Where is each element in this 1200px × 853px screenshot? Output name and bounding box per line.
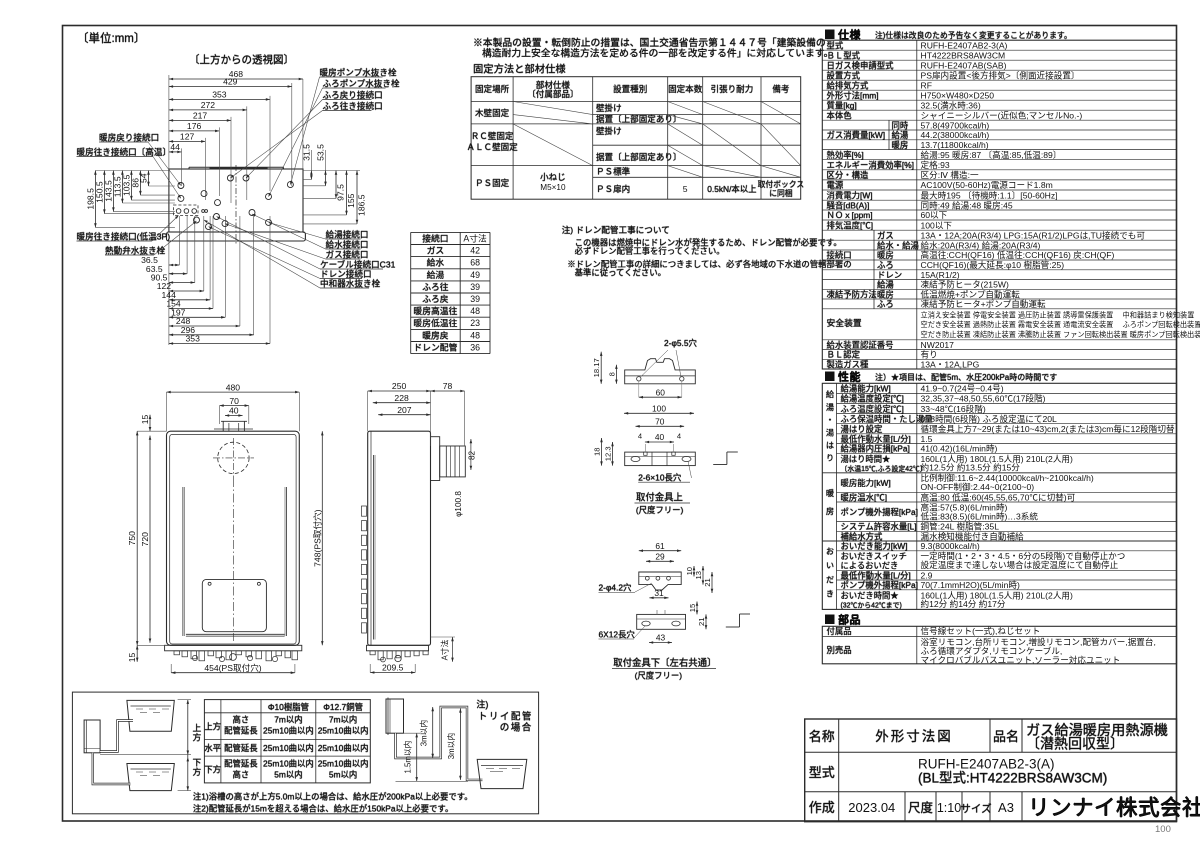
svg-text:ＰＳ標準: ＰＳ標準 bbox=[596, 166, 631, 177]
piping table bbox=[204, 700, 370, 783]
svg-text:ＢＬ認定: ＢＬ認定 bbox=[827, 350, 861, 360]
fixing methods table bbox=[466, 77, 804, 200]
svg-text:給排気方式: 給排気方式 bbox=[827, 80, 869, 90]
svg-text:29: 29 bbox=[655, 552, 665, 562]
svg-text:1:10: 1:10 bbox=[937, 801, 961, 815]
svg-text:2023.04: 2023.04 bbox=[848, 800, 895, 815]
svg-text:給水装置認証番号: 給水装置認証番号 bbox=[827, 340, 894, 350]
svg-text:定格:93: 定格:93 bbox=[921, 159, 950, 170]
svg-text:21: 21 bbox=[703, 578, 712, 586]
svg-text:性能: 性能 bbox=[838, 370, 861, 384]
front view bottom fittings bbox=[174, 651, 298, 662]
svg-text:給湯温度設定[℃]: 給湯温度設定[℃] bbox=[841, 394, 904, 404]
parts header bbox=[825, 613, 861, 627]
svg-text:給湯接続口: 給湯接続口 bbox=[326, 229, 369, 240]
unit label bbox=[77, 31, 145, 45]
svg-text:70: 70 bbox=[655, 417, 665, 427]
svg-text:品名: 品名 bbox=[993, 729, 1019, 744]
svg-text:ＰＳ固定: ＰＳ固定 bbox=[475, 177, 510, 188]
svg-text:54: 54 bbox=[139, 173, 149, 183]
side view bottom fittings bbox=[370, 651, 428, 662]
svg-text:給湯:95 暖房:87 〔高温:85,低温:89〕: 給湯:95 暖房:87 〔高温:85,低温:89〕 bbox=[921, 149, 1062, 160]
svg-text:トリイ配管: トリイ配管 bbox=[478, 711, 533, 723]
svg-text:暖房: 暖房 bbox=[892, 140, 909, 150]
svg-text:サイズ: サイズ bbox=[960, 802, 991, 815]
svg-text:454(PS取付穴): 454(PS取付穴) bbox=[204, 662, 261, 673]
svg-text:下方: 下方 bbox=[204, 765, 221, 775]
svg-text:176: 176 bbox=[187, 121, 202, 131]
svg-text:207: 207 bbox=[397, 405, 412, 415]
svg-text:33~48℃(16段階): 33~48℃(16段階) bbox=[921, 403, 986, 414]
svg-text:44: 44 bbox=[170, 142, 180, 152]
svg-text:有り: 有り bbox=[921, 349, 938, 360]
top view body bbox=[167, 165, 306, 245]
svg-text:最低作動水量[L/分]: 最低作動水量[L/分] bbox=[841, 434, 911, 444]
svg-text:ON-OFF制御:2.44~0(2100~0): ON-OFF制御:2.44~0(2100~0) bbox=[921, 481, 1035, 492]
top view top dimensions bbox=[169, 69, 303, 203]
piping section box bbox=[72, 692, 538, 814]
svg-text:32,35,37~48,50,55,60℃(17段階): 32,35,37~48,50,55,60℃(17段階) bbox=[921, 393, 1046, 404]
svg-text:〔潜熱回収型〕: 〔潜熱回収型〕 bbox=[1026, 736, 1124, 752]
svg-text:に同梱: に同梱 bbox=[769, 188, 793, 198]
svg-text:ドレン: ドレン bbox=[877, 270, 902, 280]
svg-text:ふろ温度設定[℃]: ふろ温度設定[℃] bbox=[841, 404, 904, 414]
svg-text:100: 100 bbox=[1155, 824, 1171, 835]
svg-text:13A・12A;20A(R3/4) LPG:15A(R1/2: 13A・12A;20A(R3/4) LPG:15A(R1/2)LPGは,TU接続… bbox=[921, 229, 1146, 240]
svg-text:4: 4 bbox=[638, 432, 642, 441]
svg-text:ドレン接続口: ドレン接続口 bbox=[320, 268, 372, 279]
svg-text:750: 750 bbox=[127, 531, 137, 546]
svg-text:付属品: 付属品 bbox=[827, 626, 852, 636]
svg-text:鋼管:24L 樹脂管:35L: 鋼管:24L 樹脂管:35L bbox=[921, 521, 1000, 532]
svg-text:外形寸法[mm]: 外形寸法[mm] bbox=[827, 90, 879, 100]
svg-text:PS扉内設置<後方排気>〔側面近接設置〕: PS扉内設置<後方排気>〔側面近接設置〕 bbox=[921, 69, 1080, 80]
svg-text:ふろ往: ふろ往 bbox=[422, 281, 449, 292]
svg-text:RUFH-E2407AB(SAB): RUFH-E2407AB(SAB) bbox=[921, 60, 1007, 70]
svg-text:暖房往き接続口(低温3P): 暖房往き接続口(低温3P) bbox=[77, 231, 171, 242]
piping right diagram bbox=[386, 698, 533, 789]
svg-text:480: 480 bbox=[226, 382, 241, 392]
fixing methods caption bbox=[473, 63, 566, 76]
svg-text:(BL型式:HT4222BRS8AW3CM): (BL型式:HT4222BRS8AW3CM) bbox=[918, 771, 1107, 786]
top view title bbox=[189, 53, 294, 66]
svg-text:48: 48 bbox=[470, 330, 480, 340]
svg-text:立消え安全装置 停電安全装置 過圧防止装置 誘導雷保護装置: 立消え安全装置 停電安全装置 過圧防止装置 誘導雷保護装置 中和器詰まり検知装置 bbox=[921, 311, 1195, 320]
svg-text:システム許容水量[L]: システム許容水量[L] bbox=[841, 522, 917, 532]
svg-text:〔単位:mm〕: 〔単位:mm〕 bbox=[77, 31, 145, 45]
svg-text:接続口: 接続口 bbox=[827, 250, 852, 260]
svg-text:高温:80 低温:60(45,55,65,70℃に切替)可: 高温:80 低温:60(45,55,65,70℃に切替)可 bbox=[921, 491, 1076, 502]
svg-text:ふろ: ふろ bbox=[877, 260, 894, 270]
sheet number bbox=[1155, 824, 1171, 835]
svg-text:構造耐力上安全な構造方法を定める件の一部を改定する件」に対応: 構造耐力上安全な構造方法を定める件の一部を改定する件」に対応しています。 bbox=[482, 46, 833, 59]
svg-text:※本製品の設置・転倒防止の措置は、国土交通省告示第１４４７号: ※本製品の設置・転倒防止の措置は、国土交通省告示第１４４７号「建築設備の bbox=[473, 36, 826, 49]
svg-text:シャイニーシルバー(近似色;マンセルNo.-): シャイニーシルバー(近似色;マンセルNo.-) bbox=[921, 109, 1083, 120]
svg-text:25m10曲以内: 25m10曲以内 bbox=[263, 759, 314, 769]
svg-text:7m以内: 7m以内 bbox=[274, 715, 302, 725]
svg-text:353: 353 bbox=[186, 334, 201, 344]
svg-text:騒音[dB(A)]: 騒音[dB(A)] bbox=[827, 200, 870, 210]
svg-text:φ100.8: φ100.8 bbox=[454, 491, 463, 517]
svg-text:2-φ4.2穴: 2-φ4.2穴 bbox=[599, 583, 633, 593]
svg-text:給水・給湯: 給水・給湯 bbox=[877, 240, 919, 250]
svg-text:凍結予防ヒータ+ポンプ自動運転: 凍結予防ヒータ+ポンプ自動運転 bbox=[921, 298, 1046, 309]
svg-text:HT4222BRS8AW3CM: HT4222BRS8AW3CM bbox=[921, 50, 1006, 60]
svg-text:49: 49 bbox=[470, 270, 480, 280]
svg-text:配管延長: 配管延長 bbox=[224, 726, 258, 736]
svg-text:最低作動水量[L/分]: 最低作動水量[L/分] bbox=[841, 570, 911, 580]
svg-text:注2)配管延長が15mを超える場合は、給水圧が150kPa以: 注2)配管延長が15mを超える場合は、給水圧が150kPa以上必要です。 bbox=[193, 804, 453, 814]
svg-text:272: 272 bbox=[201, 100, 216, 110]
svg-text:暖房戻り接続口: 暖房戻り接続口 bbox=[99, 132, 159, 143]
svg-text:木壁固定: 木壁固定 bbox=[475, 107, 510, 118]
svg-text:消費電力[W]: 消費電力[W] bbox=[827, 190, 873, 200]
top view callout labels bbox=[77, 67, 400, 289]
svg-text:給水接続口: 給水接続口 bbox=[326, 239, 369, 250]
svg-text:おいだき: おいだき bbox=[825, 547, 834, 604]
svg-text:取付金具上: 取付金具上 bbox=[636, 492, 683, 503]
svg-text:44.2(38000kcal/h): 44.2(38000kcal/h) bbox=[921, 130, 990, 140]
svg-text:暖房: 暖房 bbox=[877, 250, 894, 260]
svg-text:本体色: 本体色 bbox=[827, 110, 853, 120]
svg-text:区分・構造: 区分・構造 bbox=[827, 170, 869, 180]
svg-text:給湯: 給湯 bbox=[892, 130, 909, 140]
svg-text:209.5: 209.5 bbox=[382, 663, 404, 673]
svg-text:暖房: 暖房 bbox=[825, 489, 834, 525]
svg-text:備考: 備考 bbox=[772, 83, 790, 94]
svg-text:25m10曲以内: 25m10曲以内 bbox=[263, 743, 314, 753]
svg-text:13: 13 bbox=[694, 571, 703, 579]
svg-text:RUFH-E2407AB2-3(A): RUFH-E2407AB2-3(A) bbox=[921, 40, 1008, 50]
svg-text:配管延長: 配管延長 bbox=[224, 759, 258, 769]
svg-text:25m10曲以内: 25m10曲以内 bbox=[318, 759, 369, 769]
performance header bbox=[825, 370, 1057, 384]
svg-text:設置種別: 設置種別 bbox=[613, 83, 647, 94]
title block bbox=[805, 719, 1200, 822]
svg-text:〔上方からの透視図〕: 〔上方からの透視図〕 bbox=[189, 53, 294, 66]
svg-text:39: 39 bbox=[470, 294, 480, 304]
svg-text:2-φ5.5穴: 2-φ5.5穴 bbox=[664, 338, 698, 348]
svg-text:ＮＯｘ[ppm]: ＮＯｘ[ppm] bbox=[827, 210, 873, 220]
svg-text:12.3: 12.3 bbox=[604, 446, 613, 461]
svg-text:217: 217 bbox=[193, 111, 208, 121]
svg-text:給湯: 給湯 bbox=[427, 269, 445, 280]
mounting bracket upper bbox=[592, 338, 738, 515]
svg-text:暖房能力[kW]: 暖房能力[kW] bbox=[841, 478, 891, 488]
svg-text:仕様: 仕様 bbox=[838, 28, 861, 42]
svg-text:ふろ往き接続口: ふろ往き接続口 bbox=[323, 100, 383, 111]
svg-text:空だき安全装置 過熱防止装置 霧電安全装置 通電流安全装置: 空だき安全装置 過熱防止装置 霧電安全装置 通電流安全装置 ふろポンプ回転検出装… bbox=[921, 320, 1200, 329]
svg-text:48: 48 bbox=[470, 306, 480, 316]
svg-text:ドレン配管: ドレン配管 bbox=[413, 342, 457, 353]
svg-text:5: 5 bbox=[683, 184, 688, 194]
svg-text:給湯: 給湯 bbox=[877, 280, 894, 290]
svg-text:漏水検知機能付き自動補給: 漏水検知機能付き自動補給 bbox=[921, 530, 1025, 541]
svg-text:70: 70 bbox=[229, 396, 239, 406]
svg-text:41.9~0.7(24号~0.4号): 41.9~0.7(24号~0.4号) bbox=[921, 384, 1004, 394]
side view body bbox=[362, 431, 431, 651]
svg-text:42: 42 bbox=[470, 246, 480, 256]
A-size table bbox=[411, 232, 490, 353]
svg-text:15: 15 bbox=[140, 415, 150, 425]
svg-text:必ずドレン配管工事を行ってください。: 必ずドレン配管工事を行ってください。 bbox=[575, 246, 725, 256]
svg-text:尺度: 尺度 bbox=[908, 800, 934, 815]
svg-text:40: 40 bbox=[655, 432, 665, 442]
top view right dimensions bbox=[301, 144, 366, 224]
svg-text:〔付属部品〕: 〔付属部品〕 bbox=[527, 88, 578, 99]
svg-text:約12.5分 約13.5分 約15: 約12.5分 約13.5分 約15分 bbox=[921, 462, 1021, 473]
svg-text:注): 注) bbox=[476, 699, 488, 710]
svg-text:外形寸法図: 外形寸法図 bbox=[875, 729, 953, 744]
svg-text:57.8(49700kcal/h): 57.8(49700kcal/h) bbox=[921, 120, 990, 130]
svg-text:同時: 同時 bbox=[892, 120, 909, 130]
side view exhaust duct bbox=[431, 437, 477, 517]
svg-text:ＲＣ壁固定: ＲＣ壁固定 bbox=[471, 130, 514, 141]
svg-text:41(0.42)(16L/min時): 41(0.42)(16L/min時) bbox=[921, 444, 998, 454]
svg-text:方: 方 bbox=[193, 766, 202, 777]
svg-text:〔水温15℃,ふろ設定42℃〕: 〔水温15℃,ふろ設定42℃〕 bbox=[841, 464, 927, 473]
svg-text:2-6×10長穴: 2-6×10長穴 bbox=[638, 472, 682, 482]
svg-text:5m以内: 5m以内 bbox=[329, 770, 357, 780]
svg-text:の場合: の場合 bbox=[500, 722, 533, 734]
svg-text:信号線セット(一式),ねじセット: 信号線セット(一式),ねじセット bbox=[921, 625, 1041, 636]
top view bottom dimensions bbox=[141, 216, 270, 345]
svg-text:353: 353 bbox=[212, 90, 227, 100]
svg-text:型式: 型式 bbox=[809, 765, 835, 780]
svg-text:高さ: 高さ bbox=[233, 770, 250, 780]
svg-text:凍結予防方法: 凍結予防方法 bbox=[827, 289, 877, 299]
svg-text:取付ボックス: 取付ボックス bbox=[758, 179, 805, 189]
svg-text:安全装置: 安全装置 bbox=[827, 317, 862, 328]
top view left dimensions bbox=[85, 171, 174, 228]
svg-text:ガス接続口: ガス接続口 bbox=[326, 249, 369, 260]
svg-text:補給水方式: 補給水方式 bbox=[841, 531, 883, 541]
svg-text:32.5(満水時:36): 32.5(満水時:36) bbox=[921, 99, 981, 110]
svg-text:壁掛け: 壁掛け bbox=[596, 102, 622, 113]
svg-text:区分:Ⅳ 構造:一: 区分:Ⅳ 構造:一 bbox=[921, 169, 979, 180]
svg-text:23: 23 bbox=[470, 318, 480, 328]
svg-text:別売品: 別売品 bbox=[827, 645, 852, 655]
svg-text:給水:20A(R3/4) 給湯:20A(R3/4): 給水:20A(R3/4) 給湯:20A(R3/4) bbox=[921, 239, 1041, 250]
svg-text:5m以内: 5m以内 bbox=[274, 770, 302, 780]
svg-text:上方: 上方 bbox=[204, 722, 221, 732]
svg-text:720: 720 bbox=[140, 532, 150, 547]
svg-text:熱動弁水抜き栓: 熱動弁水抜き栓 bbox=[105, 245, 166, 256]
svg-text:取付金具下〔左右共通〕: 取付金具下〔左右共通〕 bbox=[613, 657, 716, 668]
svg-text:NW2017: NW2017 bbox=[921, 340, 955, 350]
svg-text:25m10曲以内: 25m10曲以内 bbox=[263, 726, 314, 736]
svg-text:水平: 水平 bbox=[204, 743, 221, 753]
svg-text:約12分 約14分 約1: 約12分 約14分 約17分 bbox=[921, 598, 1006, 609]
svg-text:給湯器内圧損[kPa]: 給湯器内圧損[kPa] bbox=[841, 444, 910, 454]
svg-text:高さ: 高さ bbox=[233, 715, 250, 725]
svg-text:空だき防止装置 凍結防止装置 沸騰防止装置 ファン回転検出装: 空だき防止装置 凍結防止装置 沸騰防止装置 ファン回転検出装置 暖房ポンプ回転検… bbox=[921, 330, 1200, 339]
svg-text:68: 68 bbox=[470, 258, 480, 268]
svg-text:100以下: 100以下 bbox=[921, 220, 953, 230]
svg-text:3m以内: 3m以内 bbox=[419, 720, 429, 747]
spec table bbox=[822, 40, 1200, 369]
drain piping note bbox=[562, 224, 852, 278]
svg-text:注)仕様は改良のため予告なく変更することがあります。: 注)仕様は改良のため予告なく変更することがあります。 bbox=[875, 30, 1072, 40]
svg-text:ポンプ機外揚程[kPa]: ポンプ機外揚程[kPa] bbox=[841, 580, 918, 590]
svg-text:78: 78 bbox=[443, 381, 453, 391]
svg-text:壁掛け: 壁掛け bbox=[596, 125, 622, 136]
svg-text:228: 228 bbox=[394, 393, 409, 403]
svg-text:ふろポンプ水抜き栓: ふろポンプ水抜き栓 bbox=[323, 78, 400, 89]
svg-text:A3: A3 bbox=[998, 800, 1014, 815]
svg-text:429: 429 bbox=[223, 77, 238, 87]
piping left diagram bbox=[84, 700, 201, 791]
svg-text:接続口: 接続口 bbox=[422, 232, 448, 243]
svg-text:固定場所: 固定場所 bbox=[475, 83, 510, 94]
svg-text:H750×W480×D250: H750×W480×D250 bbox=[921, 90, 995, 100]
svg-text:設定温度まで達しない場合は設定温度にて自動停止: 設定温度まで達しない場合は設定温度にて自動停止 bbox=[921, 559, 1119, 570]
svg-text:マイクロバブルバスユニット,ソーラー対応ユニット: マイクロバブルバスユニット,ソーラー対応ユニット bbox=[921, 654, 1121, 665]
svg-text:15: 15 bbox=[127, 653, 137, 663]
svg-text:82: 82 bbox=[467, 451, 476, 461]
svg-text:暖房往き接続口〔高温〕: 暖房往き接続口〔高温〕 bbox=[77, 146, 172, 157]
svg-text:中和器水抜き栓: 中和器水抜き栓 bbox=[320, 278, 381, 289]
svg-text:9.3(8000kcal/h): 9.3(8000kcal/h) bbox=[921, 541, 980, 551]
svg-text:0~8時間(6段階) ふろ設定温にて20L: 0~8時間(6段階) ふろ設定温にて20L bbox=[921, 413, 1058, 424]
spec header bbox=[825, 28, 1072, 42]
svg-text:下: 下 bbox=[193, 758, 202, 768]
svg-text:Φ12.7銅管: Φ12.7銅管 bbox=[323, 702, 363, 712]
svg-text:39: 39 bbox=[470, 282, 480, 292]
svg-text:61: 61 bbox=[655, 541, 665, 551]
svg-text:上: 上 bbox=[193, 723, 202, 733]
installation notice bbox=[473, 36, 833, 59]
svg-text:小ねじ: 小ねじ bbox=[540, 172, 566, 182]
svg-text:A寸法: A寸法 bbox=[440, 639, 450, 660]
svg-text:18: 18 bbox=[593, 448, 602, 456]
svg-text:おいだき能力[kW]: おいだき能力[kW] bbox=[841, 541, 908, 551]
svg-text:40: 40 bbox=[229, 406, 239, 416]
piping notes bbox=[193, 792, 473, 814]
svg-text:100: 100 bbox=[652, 404, 666, 414]
svg-text:部品: 部品 bbox=[838, 613, 861, 627]
svg-text:3m以内: 3m以内 bbox=[446, 733, 456, 760]
svg-text:質量[kg]: 質量[kg] bbox=[827, 100, 857, 110]
svg-text:ＢＬ型式: ＢＬ型式 bbox=[827, 50, 861, 60]
svg-text:基準に従ってください。: 基準に従ってください。 bbox=[575, 268, 666, 278]
svg-text:RUFH-E2407AB2-3(A): RUFH-E2407AB2-3(A) bbox=[918, 757, 1055, 772]
svg-text:ガス消費量[kW]: ガス消費量[kW] bbox=[827, 130, 886, 140]
svg-text:10: 10 bbox=[685, 567, 694, 575]
svg-text:最大時195 〔待機時:1.1〕[50-60Hz]: 最大時195 〔待機時:1.1〕[50-60Hz] bbox=[921, 189, 1058, 200]
svg-text:1.5m以内: 1.5m以内 bbox=[403, 740, 413, 773]
svg-text:同時:49 給湯:48 暖房:45: 同時:49 給湯:48 暖房:45 bbox=[921, 199, 1013, 210]
svg-text:31: 31 bbox=[654, 588, 664, 598]
svg-text:60以下: 60以下 bbox=[921, 210, 948, 220]
svg-text:ふろ保温時間・たし湯量: ふろ保温時間・たし湯量 bbox=[841, 414, 933, 424]
svg-text:給水: 給水 bbox=[427, 257, 445, 268]
svg-text:ふろ戻り接続口: ふろ戻り接続口 bbox=[323, 89, 383, 100]
svg-text:15A(R1/2): 15A(R1/2) bbox=[921, 270, 960, 280]
svg-text:6X12長穴: 6X12長穴 bbox=[599, 629, 636, 639]
performance table bbox=[822, 383, 1176, 609]
svg-text:暖房温水[℃]: 暖房温水[℃] bbox=[841, 492, 888, 502]
svg-text:(尺度フリー): (尺度フリー) bbox=[636, 505, 684, 515]
svg-text:給湯能力[kW]: 給湯能力[kW] bbox=[841, 384, 891, 394]
svg-text:(尺度フリー): (尺度フリー) bbox=[635, 671, 683, 681]
svg-text:固定本数: 固定本数 bbox=[668, 83, 703, 94]
svg-text:186.5: 186.5 bbox=[357, 194, 367, 216]
svg-text:給湯・湯はり: 給湯・湯はり bbox=[825, 389, 834, 466]
svg-text:36: 36 bbox=[470, 343, 480, 353]
svg-text:21: 21 bbox=[697, 618, 706, 626]
svg-text:0.5kN/本以上: 0.5kN/本以上 bbox=[707, 184, 756, 194]
svg-text:(32℃から42℃まで): (32℃から42℃まで) bbox=[841, 601, 902, 609]
svg-text:13A・12A,LPG: 13A・12A,LPG bbox=[921, 359, 980, 369]
front view dimensions bbox=[127, 382, 324, 674]
svg-text:4: 4 bbox=[677, 432, 681, 441]
svg-text:748(PS取付穴): 748(PS取付穴) bbox=[311, 509, 322, 566]
svg-text:25m10曲以内: 25m10曲以内 bbox=[318, 726, 369, 736]
svg-text:暖房戻: 暖房戻 bbox=[422, 329, 449, 340]
svg-text:RF: RF bbox=[921, 80, 932, 90]
svg-text:注) ドレン配管工事について: 注) ドレン配管工事について bbox=[562, 224, 670, 235]
svg-text:70(7.1mmH2O)(5L/min時): 70(7.1mmH2O)(5L/min時) bbox=[921, 580, 1020, 590]
svg-text:引張り耐力: 引張り耐力 bbox=[711, 83, 754, 94]
svg-text:電源: 電源 bbox=[827, 180, 844, 190]
svg-text:53.5: 53.5 bbox=[316, 144, 326, 161]
svg-text:M5×10: M5×10 bbox=[540, 183, 566, 192]
svg-text:低温燃焼+ポンプ自動運転: 低温燃焼+ポンプ自動運転 bbox=[921, 288, 1021, 299]
svg-text:18.17: 18.17 bbox=[592, 358, 601, 377]
front view body bbox=[165, 421, 302, 651]
svg-text:ケーブル接続口C31: ケーブル接続口C31 bbox=[320, 259, 396, 270]
svg-text:リンナイ株式会社: リンナイ株式会社 bbox=[1028, 796, 1200, 820]
svg-text:43: 43 bbox=[656, 633, 666, 643]
svg-text:25m10曲以内: 25m10曲以内 bbox=[318, 743, 369, 753]
svg-text:31.5: 31.5 bbox=[301, 144, 311, 161]
svg-text:循環金具上方7~29(または10~43)cm,2(または3): 循環金具上方7~29(または10~43)cm,2(または3)cm毎に12段階切替 bbox=[921, 423, 1175, 434]
svg-text:熱効率[%]: 熱効率[%] bbox=[827, 150, 864, 160]
svg-text:250: 250 bbox=[392, 381, 407, 391]
side view dimensions bbox=[368, 381, 465, 674]
svg-text:2.9: 2.9 bbox=[921, 570, 933, 580]
svg-text:名称: 名称 bbox=[809, 729, 835, 744]
svg-text:暖房高温往: 暖房高温往 bbox=[413, 305, 457, 316]
svg-text:配管延長: 配管延長 bbox=[224, 743, 258, 753]
svg-text:型式: 型式 bbox=[827, 40, 844, 50]
svg-text:A寸法: A寸法 bbox=[463, 232, 487, 243]
svg-text:ガス: ガス bbox=[427, 246, 445, 256]
svg-text:ふろ: ふろ bbox=[877, 299, 894, 309]
svg-text:ポンプ機外揚程[kPa]: ポンプ機外揚程[kPa] bbox=[841, 507, 918, 517]
svg-text:155: 155 bbox=[346, 193, 356, 208]
svg-text:によるおいだき: によるおいだき bbox=[841, 560, 899, 570]
svg-text:製造ガス種: 製造ガス種 bbox=[827, 359, 869, 369]
svg-text:97.5: 97.5 bbox=[336, 184, 346, 201]
svg-text:13.7(11800kcal/h): 13.7(11800kcal/h) bbox=[921, 140, 989, 150]
top view connection ports bbox=[173, 175, 293, 230]
svg-text:設置方式: 設置方式 bbox=[827, 70, 861, 80]
svg-text:注）★項目は、配管5m、水圧200kPa時の時間です: 注）★項目は、配管5m、水圧200kPa時の時間です bbox=[875, 372, 1057, 382]
svg-text:8: 8 bbox=[607, 372, 616, 376]
mounting bracket lower bbox=[599, 541, 751, 681]
svg-text:7m以内: 7m以内 bbox=[329, 715, 357, 725]
svg-text:排気温度[℃]: 排気温度[℃] bbox=[827, 220, 874, 230]
svg-text:方: 方 bbox=[193, 732, 202, 743]
svg-text:暖房: 暖房 bbox=[877, 289, 894, 299]
svg-text:暖房低温往: 暖房低温往 bbox=[413, 317, 457, 328]
svg-text:作成: 作成 bbox=[809, 800, 835, 815]
svg-text:低温:83(8.5)(6L/min時)…3系統: 低温:83(8.5)(6L/min時)…3系統 bbox=[921, 510, 1039, 521]
svg-text:据置〔上部固定あり〕: 据置〔上部固定あり〕 bbox=[596, 151, 681, 162]
svg-text:凍結予防ヒータ(215W): 凍結予防ヒータ(215W) bbox=[921, 279, 1009, 290]
